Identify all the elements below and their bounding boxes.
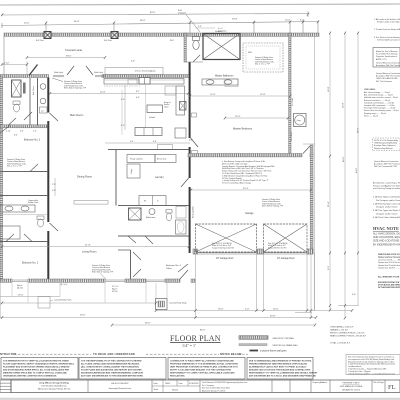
notes box 2 bbox=[79, 358, 166, 380]
svg-text:12'-6": 12'-6" bbox=[210, 94, 216, 96]
svg-text:2'-4": 2'-4" bbox=[33, 131, 37, 133]
wall: left exterior bbox=[0, 77, 3, 281]
svg-text:W/ PLANS BEFORE INSTALLATION: W/ PLANS BEFORE INSTALLATION bbox=[378, 286, 400, 289]
legend frame wall bar bbox=[239, 344, 267, 346]
dim line bath2 bbox=[0, 214, 47, 216]
svg-text:PROPOSED DIMENSIONS, IF IT IS: PROPOSED DIMENSIONS, IF IT IS DETERMINED… bbox=[170, 363, 238, 366]
bench seat box bbox=[155, 155, 176, 163]
svg-text:General Masonry Construction: General Masonry Construction bbox=[376, 72, 400, 75]
svg-text:Bathroom: Bathroom bbox=[146, 216, 156, 219]
window door schedule bbox=[378, 253, 400, 269]
svg-text:Accordance With The Provisions: Accordance With The Provisions bbox=[376, 64, 400, 67]
svg-text:Either Side of Opening, TYP: Either Side of Opening, TYP bbox=[92, 271, 114, 274]
svg-text:Bedroom No. 2: Bedroom No. 2 bbox=[22, 262, 39, 265]
live loads block bbox=[364, 88, 399, 117]
svg-text:Mortar For Use In Masonry: Mortar For Use In Masonry bbox=[376, 50, 398, 53]
svg-text:Vendor Came: Vendor Came bbox=[28, 201, 38, 204]
svg-text:FL: FL bbox=[388, 384, 396, 391]
left column: partition bath2/bedroom2 bbox=[0, 241, 47, 243]
svg-text:Main Room: Main Room bbox=[70, 113, 83, 117]
svg-text:WINDOW AND DOOR SCHEDULE: WINDOW AND DOOR SCHEDULE bbox=[378, 253, 400, 256]
numbered notes top right bbox=[374, 18, 400, 42]
garage door 2 dashed bbox=[264, 224, 308, 252]
bath1 partition vertical bbox=[37, 78, 39, 126]
entry double door swings bbox=[67, 66, 74, 75]
svg-text:LIVE LOADS:: LIVE LOADS: bbox=[364, 88, 376, 91]
pocket cabinet bath1 bbox=[23, 83, 26, 94]
organizer note bbox=[28, 199, 38, 204]
svg-text:LIVING AREA = 2,260 S.F.: LIVING AREA = 2,260 S.F. bbox=[330, 326, 354, 329]
notes box 4 bbox=[247, 358, 313, 380]
dimension tick slashes bbox=[1, 13, 359, 327]
svg-text:39'-8": 39'-8" bbox=[270, 316, 276, 318]
svg-text:8'-4": 8'-4" bbox=[14, 135, 18, 137]
door swing at lanai door bbox=[29, 65, 38, 76]
wall: house front (left segment) bbox=[0, 75, 49, 78]
svg-text:602. The Provisions: 602. The Provisions bbox=[376, 81, 392, 83]
left column: partition bath1/bedroom3 (hatched) bbox=[0, 125, 47, 128]
bedroom4 door swing bbox=[178, 264, 188, 272]
svg-text:44'-0": 44'-0" bbox=[356, 167, 358, 173]
svg-text:2. Provide Hurricane Straps a: 2. Provide Hurricane Straps at All Truss… bbox=[374, 28, 400, 31]
svg-text:Altamonte Springs Florida 3271: Altamonte Springs Florida 32714 bbox=[38, 388, 71, 391]
dim ticks top bbox=[2, 11, 318, 33]
svg-text:4. Florida Plumbing Code/Mech: 4. Florida Plumbing Code/Mech -- as amen… bbox=[348, 373, 395, 375]
svg-text:PLACEMENT AND DOOR ROUGH OPENI: PLACEMENT AND DOOR ROUGH OPENING SIZES A… bbox=[3, 366, 70, 369]
svg-text:16' Garage Door: 16' Garage Door bbox=[277, 257, 295, 260]
svg-text:FLOOR SLAB HEIGHTS, SAFETY GUA: FLOOR SLAB HEIGHTS, SAFETY GUARDRAILS/ W… bbox=[3, 363, 75, 366]
svg-text:AND DOOR MANUFACTURER SPECS. A: AND DOOR MANUFACTURER SPECS. ALL TO BE I… bbox=[3, 369, 70, 372]
svg-text:and Color by Designer and/or O: and Color by Designer and/or Owner. bbox=[373, 187, 400, 190]
svg-text:Dropped: Dropped bbox=[178, 13, 186, 15]
svg-text:REGULATIONS.: REGULATIONS. bbox=[170, 375, 185, 378]
door swing at bearing wall bbox=[50, 113, 59, 121]
vanity bath2 bbox=[0, 205, 35, 212]
thermostat box at bearing wall bbox=[192, 151, 198, 156]
dim line above laundry bbox=[105, 142, 190, 144]
porch rect left bbox=[38, 297, 50, 309]
svg-text:Joe DiGiacomo 321-663-3237 d: Joe DiGiacomo 321-663-3237 dgiacomojoe@y… bbox=[202, 382, 248, 384]
svg-text:Island: Island bbox=[164, 106, 168, 108]
svg-text:38'-0": 38'-0" bbox=[140, 20, 146, 22]
bottom dim lines bbox=[0, 297, 352, 326]
svg-text:DENOTES 2x4 FRAME WALL: DENOTES 2x4 FRAME WALL bbox=[273, 344, 298, 347]
svg-text:9'-0": 9'-0" bbox=[328, 265, 330, 270]
svg-text:2'-8": 2'-8" bbox=[189, 140, 193, 142]
svg-text:ANY DISCREPANCIES TO G.W.D.D.: ANY DISCREPANCIES TO G.W.D.D. AND DESIGN… bbox=[249, 375, 316, 378]
wall: laundry top bbox=[108, 149, 189, 151]
svg-text:dwarage@hotmail.com: dwarage@hotmail.com bbox=[109, 387, 132, 390]
dim vertical living bbox=[54, 178, 56, 196]
svg-text:5'-4": 5'-4" bbox=[198, 26, 202, 28]
svg-text:Laundry: Laundry bbox=[155, 176, 164, 179]
svg-text:8'x8' Post: 8'x8' Post bbox=[36, 39, 44, 42]
closet door swings bedroom4 bbox=[133, 252, 141, 260]
general masonry note box bbox=[376, 72, 400, 83]
svg-text:General Masonry Construction: General Masonry Construction bbox=[376, 61, 400, 64]
svg-text:NOTE: It Is The Responsibilit: NOTE: It Is The Responsibility bbox=[374, 139, 398, 142]
garage dim line 42'-0 bbox=[191, 189, 311, 191]
door swings bath2 bbox=[6, 234, 14, 242]
svg-text:24'-0": 24'-0" bbox=[24, 23, 30, 25]
tub corner master bbox=[225, 79, 238, 87]
svg-text:48'-0": 48'-0" bbox=[358, 127, 360, 133]
svg-text:Side Light: Side Light bbox=[94, 71, 103, 74]
svg-text:General Masonry Construction: General Masonry Construction bbox=[374, 160, 398, 163]
svg-text:4'-0": 4'-0" bbox=[136, 97, 140, 99]
svg-text:BK-407-230-0937: BK-407-230-0937 bbox=[111, 383, 129, 385]
svg-text:Envelope Water Tightness /: Envelope Water Tightness / bbox=[374, 144, 396, 147]
svg-text:Designer and/or Owner.: Designer and/or Owner. bbox=[376, 213, 398, 216]
garage front wall bbox=[193, 252, 313, 254]
svg-text:Greg Wilson Design Drafting: Greg Wilson Design Drafting bbox=[39, 382, 69, 385]
dim line front 38'-0 bbox=[27, 57, 105, 59]
svg-text:HVAC NOTE: HVAC NOTE bbox=[373, 226, 399, 231]
svg-text:Dropback: Dropback bbox=[218, 30, 227, 32]
svg-text:9518 MARQUIS LN AVE: 9518 MARQUIS LN AVE bbox=[340, 385, 363, 388]
svg-text:16'-0": 16'-0" bbox=[273, 309, 279, 311]
svg-text:3. Sec. Beam to Interior Bear: 3. Sec. Beam to Interior Bearing Walls S… bbox=[374, 36, 400, 39]
bottom scan shadow bbox=[0, 398, 400, 400]
svg-text:3'-0": 3'-0" bbox=[20, 131, 24, 133]
dishwasher bbox=[128, 79, 137, 84]
right vertical dim lines bbox=[315, 33, 359, 318]
fridge laundry bbox=[127, 164, 140, 178]
svg-text:1. All Door Styles and Hardwar: 1. All Door Styles and Hardware Selected bbox=[373, 196, 400, 199]
svg-text:Rooms other than sleeping room: Rooms other than sleeping rooms ... 40 p… bbox=[364, 109, 399, 112]
svg-text:Accordance With The Provisions: Accordance With The Provisions bbox=[376, 75, 400, 78]
dim line lanai left bbox=[2, 64, 27, 66]
dimension line second tier bbox=[1, 22, 318, 26]
rebar note bedroom4 bbox=[92, 264, 114, 274]
svg-text:Island: Island bbox=[149, 117, 156, 119]
svg-text:ASTM C 270.: ASTM C 270. bbox=[376, 58, 387, 61]
svg-text:Either Side of Opening, TYP: Either Side of Opening, TYP bbox=[262, 205, 284, 208]
svg-text:TO READ AND UNDERSTAND: TO READ AND UNDERSTAND bbox=[93, 352, 135, 356]
garage door 1 dashed bbox=[196, 224, 257, 252]
door swing bedroom3 bbox=[30, 164, 38, 172]
svg-text:(ALL CONDITIONS BY CODES), AGA: (ALL CONDITIONS BY CODES), AGAINST THE F… bbox=[81, 366, 140, 369]
cabinets at laundry wall bbox=[158, 145, 173, 150]
svg-text:Covered Lanai: Covered Lanai bbox=[65, 48, 82, 52]
garage door note blobs bbox=[212, 242, 234, 249]
svg-text:Bedroom No. 4: Bedroom No. 4 bbox=[166, 264, 181, 267]
date cells bbox=[152, 380, 200, 393]
post at lanai bbox=[44, 32, 51, 39]
svg-text:8'-0": 8'-0" bbox=[121, 125, 125, 127]
svg-text:2'-8": 2'-8" bbox=[131, 61, 135, 63]
right dim labels rotated bbox=[328, 86, 360, 270]
svg-text:25'-4": 25'-4" bbox=[328, 201, 330, 207]
svg-text:ORDINANCES, BEFORE CONSTRUCTIO: ORDINANCES, BEFORE CONSTRUCTION COMMENCE… bbox=[3, 375, 57, 378]
svg-text:Covered Entry Stoop: Covered Entry Stoop bbox=[169, 302, 187, 305]
note text left bbox=[7, 158, 26, 168]
svg-text:1-0: 1-0 bbox=[41, 111, 44, 113]
notes box 1 bbox=[1, 358, 78, 380]
svg-text:4'-0": 4'-0" bbox=[52, 190, 56, 192]
linen box bbox=[40, 107, 48, 113]
svg-text:IT IS IMPERATIVE FOR TO VERIFY: IT IS IMPERATIVE FOR TO VERIFY ALL ELEVA… bbox=[3, 360, 69, 363]
legend picture frame wall bbox=[250, 350, 259, 352]
window: bedroom4 left bbox=[105, 279, 125, 281]
svg-text:AUTO ANY DISCREPANCIES TO THE: AUTO ANY DISCREPANCIES TO THE DESIGNER B… bbox=[81, 375, 144, 378]
property info cell bbox=[340, 383, 363, 392]
svg-text:To Resist Uplift and Lateral L: To Resist Uplift and Lateral Loads Per E… bbox=[377, 39, 400, 42]
svg-text:16'-8": 16'-8" bbox=[343, 102, 345, 108]
cabinet projection lines bbox=[121, 90, 123, 135]
window: bedroom2 bbox=[12, 279, 28, 281]
svg-text:Bedroom No. 3: Bedroom No. 3 bbox=[24, 139, 41, 142]
closet wall bedroom4 bbox=[130, 250, 132, 279]
svg-text:Attic with limited storage ...: Attic with limited storage ....... 20 ps… bbox=[364, 94, 393, 97]
svg-text:Pantry Cabinets: Pantry Cabinets bbox=[130, 158, 143, 161]
svg-text:BUILDER CAN OCCUR DUE THE BUIL: BUILDER CAN OCCUR DUE THE BUILDER AND CO… bbox=[249, 369, 311, 372]
svg-text:2/8/02: 2/8/02 bbox=[165, 383, 170, 385]
svg-text:a picture frame wall goes: a picture frame wall goes bbox=[260, 350, 287, 353]
wall: bottom exterior bbox=[0, 279, 12, 282]
svg-text:If There Is Living Space Above: If There Is Living Space Above Garage. bbox=[222, 182, 252, 185]
company cell bbox=[38, 382, 71, 391]
range bbox=[180, 102, 187, 111]
upper cab dashed bbox=[104, 85, 140, 87]
svg-text:DUE TO DIMENSIONAL AND EXPANSI: DUE TO DIMENSIONAL AND EXPANSION OF PRIN… bbox=[249, 360, 312, 363]
dim line master 12'-6 bbox=[190, 95, 290, 97]
general masonry 2 bbox=[374, 160, 400, 168]
svg-text:Altamonte Springs, FL 32701: Altamonte Springs, FL 32701 bbox=[202, 389, 225, 392]
linen hall bath bbox=[176, 207, 186, 219]
svg-text:(3) 2 x 12: (3) 2 x 12 bbox=[60, 284, 67, 286]
legend CMU wall bar bbox=[239, 336, 268, 339]
svg-text:DELAND FL 32724: DELAND FL 32724 bbox=[342, 389, 361, 392]
svg-text:6'-2": 6'-2" bbox=[136, 91, 140, 93]
svg-text:2'-10": 2'-10" bbox=[4, 63, 9, 65]
cabinet right bbox=[175, 128, 186, 138]
svg-text:Property Address:: Property Address: bbox=[313, 381, 329, 384]
svg-text:851 Trance Street Blvd, Suite: 851 Trance Street Blvd, Suite 8311 bbox=[202, 387, 230, 390]
svg-text:1. All Lumber to be Southern: 1. All Lumber to be Southern Yellow Pine… bbox=[374, 18, 400, 21]
notes box 3 bbox=[168, 358, 245, 380]
cabinets note bbox=[373, 182, 400, 191]
svg-text:22'-6": 22'-6" bbox=[100, 92, 106, 94]
svg-text:Cage: Cage bbox=[297, 120, 301, 122]
svg-text:1/4" = 1': 1/4" = 1' bbox=[182, 343, 196, 348]
tub hall bath bbox=[176, 220, 187, 234]
toilet bath1 bbox=[13, 101, 20, 105]
svg-text:2. All Flooring Types and Colo: 2. All Flooring Types and Color Selected… bbox=[373, 202, 400, 205]
svg-text:Bath Room: Bath Room bbox=[32, 86, 35, 95]
svg-text:21'-8": 21'-8" bbox=[85, 245, 91, 247]
svg-text:4'-0": 4'-0" bbox=[153, 141, 157, 143]
toilet in W.C. bbox=[193, 37, 200, 41]
svg-text:CONTRACTOR TO FIELD VERIFY ALL: CONTRACTOR TO FIELD VERIFY ALL EXISTING … bbox=[170, 360, 234, 363]
island bbox=[147, 105, 163, 113]
svg-text:WIC: WIC bbox=[248, 52, 253, 54]
extension lines below wall bbox=[1, 283, 146, 318]
svg-text:Dining Room: Dining Room bbox=[77, 175, 92, 179]
svg-text:NOTIFY G.G.B. AND HOME BUILDER: NOTIFY G.G.B. AND HOME BUILDER. IT IS TH… bbox=[170, 369, 232, 372]
window: bedroom4 right bbox=[146, 279, 165, 281]
svg-text:Fridge: Fridge bbox=[131, 169, 133, 174]
wall: bearing wall center-right bbox=[189, 62, 191, 138]
svg-text:GARAGE = 752 S.F.: GARAGE = 752 S.F. bbox=[330, 329, 349, 332]
svg-text:12'-6": 12'-6" bbox=[260, 94, 266, 96]
revision table bbox=[0, 380, 11, 393]
garage jambs bbox=[193, 249, 198, 254]
svg-text:9'-0": 9'-0" bbox=[352, 294, 356, 296]
wall: house front kitchen segment bbox=[102, 75, 189, 78]
door swings bath1 bbox=[24, 112, 32, 120]
door swing W.C. bbox=[193, 55, 200, 62]
svg-text:File of Page:: File of Page: bbox=[374, 382, 385, 384]
fridge kitchen bbox=[165, 86, 176, 95]
svg-text:PRINTED DIMENSIONS TAKE PRECED: PRINTED DIMENSIONS TAKE PRECEDENCE OVER … bbox=[249, 363, 308, 366]
svg-text:4'-0": 4'-0" bbox=[121, 99, 125, 101]
bottom dim labels bbox=[18, 295, 279, 332]
svg-text:29'-0": 29'-0" bbox=[80, 315, 86, 317]
svg-text:DOOR BUCKS AND WINDOW BUCKS: DOOR BUCKS AND WINDOW BUCKS bbox=[378, 284, 400, 287]
svg-text:Either Side of Openings, TYP: Either Side of Openings, TYP bbox=[64, 87, 87, 90]
svg-text:RESPONSIBILITY TO COMPLY WITH: RESPONSIBILITY TO COMPLY WITH ALL APPLIC… bbox=[170, 372, 235, 375]
svg-text:Of All Waterproofing/Building: Of All Waterproofing/Building bbox=[374, 142, 397, 145]
mortar note box bbox=[373, 48, 400, 68]
closet bedroom3 bbox=[0, 126, 10, 134]
svg-text:46'-6": 46'-6" bbox=[74, 21, 80, 23]
svg-text:Date: Date bbox=[179, 382, 183, 385]
covered entry stoop square bbox=[156, 299, 168, 310]
svg-text:RESPONSIBILITY TO VERIFY ALL D: RESPONSIBILITY TO VERIFY ALL DIMENSIONS … bbox=[249, 372, 318, 375]
svg-text:Greater than 50 sqf but less .: Greater than 50 sqf but less .... 36 S.F… bbox=[378, 264, 400, 267]
wall: garage right bbox=[310, 145, 313, 253]
left column: partition bedroom3/bath2 bbox=[0, 171, 47, 173]
svg-text:TOTAL = 4,766.66 S.F.: TOTAL = 4,766.66 S.F. bbox=[330, 342, 351, 345]
svg-text:Waterproofing Methods: Waterproofing Methods bbox=[374, 147, 393, 150]
svg-text:Stairs ....... 40 psf: Stairs ....... 40 psf bbox=[364, 114, 378, 117]
egress labels bbox=[17, 284, 119, 293]
svg-text:8'x8' Post: 8'x8' Post bbox=[104, 39, 112, 42]
shower hall bath bbox=[129, 208, 142, 220]
tub bath2 bbox=[0, 226, 20, 239]
svg-text:Master Bedroom: Master Bedroom bbox=[233, 127, 252, 131]
svg-text:2'-10": 2'-10" bbox=[6, 131, 11, 133]
svg-text:Greater than 100 S.F. ........: Greater than 100 S.F. ......... 48 S.F. bbox=[378, 266, 400, 269]
svg-text:Habitable attics and attics se: Habitable attics and attics served ... 3… bbox=[364, 96, 398, 99]
svg-text:5'-4": 5'-4" bbox=[130, 141, 134, 143]
note leader main room bbox=[64, 80, 87, 90]
left column: partition bath2 bbox=[0, 195, 47, 197]
hall door swings bbox=[128, 236, 136, 243]
svg-text:FLOOR PLAN: FLOOR PLAN bbox=[170, 334, 221, 343]
svg-text:29'-8": 29'-8" bbox=[232, 19, 238, 21]
svg-text:Smaller Lumber to be Utility G: Smaller Lumber to be Utility Grade or Be… bbox=[377, 21, 400, 24]
svg-text:Covered Entry Porch: Covered Entry Porch bbox=[54, 299, 72, 302]
svg-text:ANCIES/DISCREPANCIES AND THEIR: ANCIES/DISCREPANCIES AND THEIR ENGINEERI… bbox=[81, 372, 144, 375]
wall: bath partition bbox=[118, 205, 189, 207]
svg-text:42'-0": 42'-0" bbox=[243, 188, 249, 190]
sink hall bath bbox=[149, 209, 155, 215]
svg-text:Noted: Noted bbox=[172, 389, 179, 392]
svg-text:Properties Specification of: Properties Specification of bbox=[376, 55, 397, 58]
AC unit square bbox=[294, 114, 307, 127]
svg-text:2 x 6 Vault: 2 x 6 Vault bbox=[291, 98, 294, 106]
side light left bbox=[53, 75, 64, 77]
svg-text:Living Room: Living Room bbox=[82, 250, 96, 254]
wall: bath bottom bbox=[118, 235, 189, 237]
wall: laundry left bbox=[115, 150, 117, 206]
svg-text:86'-0": 86'-0" bbox=[200, 330, 206, 332]
svg-text:With The Provisions ACI 530: With The Provisions ACI 530 bbox=[374, 165, 397, 168]
wall: master/garage bottom bbox=[188, 154, 302, 157]
svg-text:Bearing Wall: Bearing Wall bbox=[193, 206, 195, 218]
notes box 5 right bbox=[346, 355, 400, 375]
svg-text:100 Weathersfield Avenue: 100 Weathersfield Avenue bbox=[41, 385, 67, 388]
svg-text:MANUFACTURER SPECS AND TO COMP: MANUFACTURER SPECS AND TO COMPLY WITH AL… bbox=[3, 372, 67, 375]
svg-text:Per Designer and/or Owner.: Per Designer and/or Owner. bbox=[376, 199, 400, 202]
svg-text:18' Garage Door: 18' Garage Door bbox=[216, 257, 234, 260]
svg-text:SIZE AND LOCATIONS SHALL BE: SIZE AND LOCATIONS SHALL BE bbox=[373, 240, 400, 243]
svg-text:Accordance With The Provisions: Accordance With The Provisions bbox=[374, 163, 400, 166]
beam dashed above living bbox=[74, 201, 108, 205]
master vanity counter bbox=[202, 79, 238, 85]
svg-text:Max. 4' O.C. x, TYP: Max. 4' O.C. x, TYP bbox=[255, 64, 271, 66]
svg-text:Vic's Company: Vic's Company bbox=[202, 385, 214, 387]
svg-text:Garage: Garage bbox=[245, 211, 254, 215]
svg-text:Side Light: Side Light bbox=[54, 71, 63, 74]
svg-text:Designer and/or Owner.: Designer and/or Owner. bbox=[376, 206, 398, 209]
svg-text:Window and Door (Greater) Egre: Window and Door (Greater) Egress bbox=[378, 256, 400, 259]
svg-text:BY INDEPENDENT HVAC CO.: BY INDEPENDENT HVAC CO. bbox=[373, 243, 400, 246]
garage rebar note bbox=[262, 198, 284, 208]
toilet bath2 bbox=[37, 216, 44, 220]
wall: bearing wall center-left bbox=[47, 78, 49, 113]
svg-text:Master Bathroom: Master Bathroom bbox=[215, 75, 233, 78]
wall: W.C. left bbox=[184, 33, 186, 62]
top roof line bbox=[0, 4, 400, 5]
svg-text:PROPERTY INFO: PROPERTY INFO bbox=[343, 383, 360, 385]
wall: rear lanai edge band bbox=[4, 33, 319, 36]
lanai left end line bbox=[3, 37, 5, 78]
bath1 partition vertical 2 bbox=[29, 78, 31, 125]
svg-text:Attic without storage .......: Attic without storage ....... 10 psf bbox=[364, 91, 390, 94]
svg-text:Date: Date bbox=[154, 382, 158, 385]
svg-text:48'-0": 48'-0" bbox=[343, 156, 345, 162]
svg-text:ALTERNATIVELY CAN DO NOT EXIST: ALTERNATIVELY CAN DO NOT EXIST TO FINISH… bbox=[249, 366, 307, 369]
svg-text:BUILDER/CONTRACTOR TO VERIFY A: BUILDER/CONTRACTOR TO VERIFY ALL bbox=[378, 281, 400, 284]
kitchen counter bbox=[104, 79, 184, 85]
svg-text:W.C.: W.C. bbox=[170, 40, 175, 42]
svg-text:Fixtures and Appliances Select: Fixtures and Appliances Selected and bbox=[373, 184, 400, 187]
svg-text:Greater than 20 S.F. but less: Greater than 20 S.F. but less ... 24 S.F… bbox=[378, 261, 400, 264]
svg-text:Bench Seat: Bench Seat bbox=[157, 158, 167, 161]
svg-text:84'-0": 84'-0" bbox=[150, 12, 156, 14]
tie line right bbox=[303, 143, 315, 145]
svg-text:1 x 4 Wood: 1 x 4 Wood bbox=[291, 132, 293, 141]
svg-text:VARY FROM WHAT IS SHOWN ON THE: VARY FROM WHAT IS SHOWN ON THESE PLANS, … bbox=[170, 366, 238, 369]
svg-text:23'-0 x 8'-0 Dropback: 23'-0 x 8'-0 Dropback bbox=[135, 70, 157, 73]
svg-text:18'-0": 18'-0" bbox=[218, 309, 224, 311]
svg-text:Guardrail infill components ..: Guardrail infill components ....... 50 l… bbox=[364, 104, 395, 107]
toilet hall bath bbox=[166, 210, 172, 214]
svg-text:Range w/: Range w/ bbox=[164, 102, 171, 104]
dim line main room 22'-6 bbox=[50, 93, 188, 95]
svg-text:REAR COVERED PORCH = 496.66 S.: REAR COVERED PORCH = 496.66 S.F. bbox=[330, 335, 367, 338]
top dim labels bbox=[24, 12, 305, 25]
svg-text:38'-0": 38'-0" bbox=[66, 56, 72, 58]
svg-text:2'-0": 2'-0" bbox=[245, 309, 250, 311]
svg-text:07/10/2023: 07/10/2023 bbox=[189, 383, 198, 385]
svg-text:ALL WINDOWS TO BE ...: ALL WINDOWS TO BE ... bbox=[378, 276, 400, 279]
door swings at bearing wall bbox=[191, 138, 198, 147]
dropback outline above kitchen bbox=[105, 68, 163, 75]
